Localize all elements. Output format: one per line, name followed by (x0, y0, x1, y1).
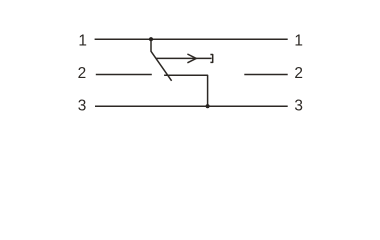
svg-text:2: 2 (294, 65, 303, 82)
actuator end bracket (210, 55, 212, 63)
svg-text:3: 3 (78, 98, 87, 115)
wire terminal 2 left stub (96, 73, 152, 75)
actuator arrowhead (187, 54, 196, 63)
junction node on terminal 1 rail (149, 37, 153, 41)
wire terminal 1 rail (95, 38, 288, 40)
wire from lever to terminal 3 rail (164, 75, 208, 106)
svg-text:1: 1 (78, 32, 87, 49)
svg-text:2: 2 (78, 65, 87, 82)
switch lever (movable contact) (151, 39, 172, 81)
svg-text:1: 1 (294, 32, 303, 49)
svg-text:3: 3 (294, 98, 303, 115)
wire terminal 2 right stub (244, 74, 287, 76)
actuator arrow shaft (156, 57, 212, 59)
wire terminal 3 rail (95, 105, 288, 107)
junction node on terminal 3 rail (206, 104, 210, 108)
